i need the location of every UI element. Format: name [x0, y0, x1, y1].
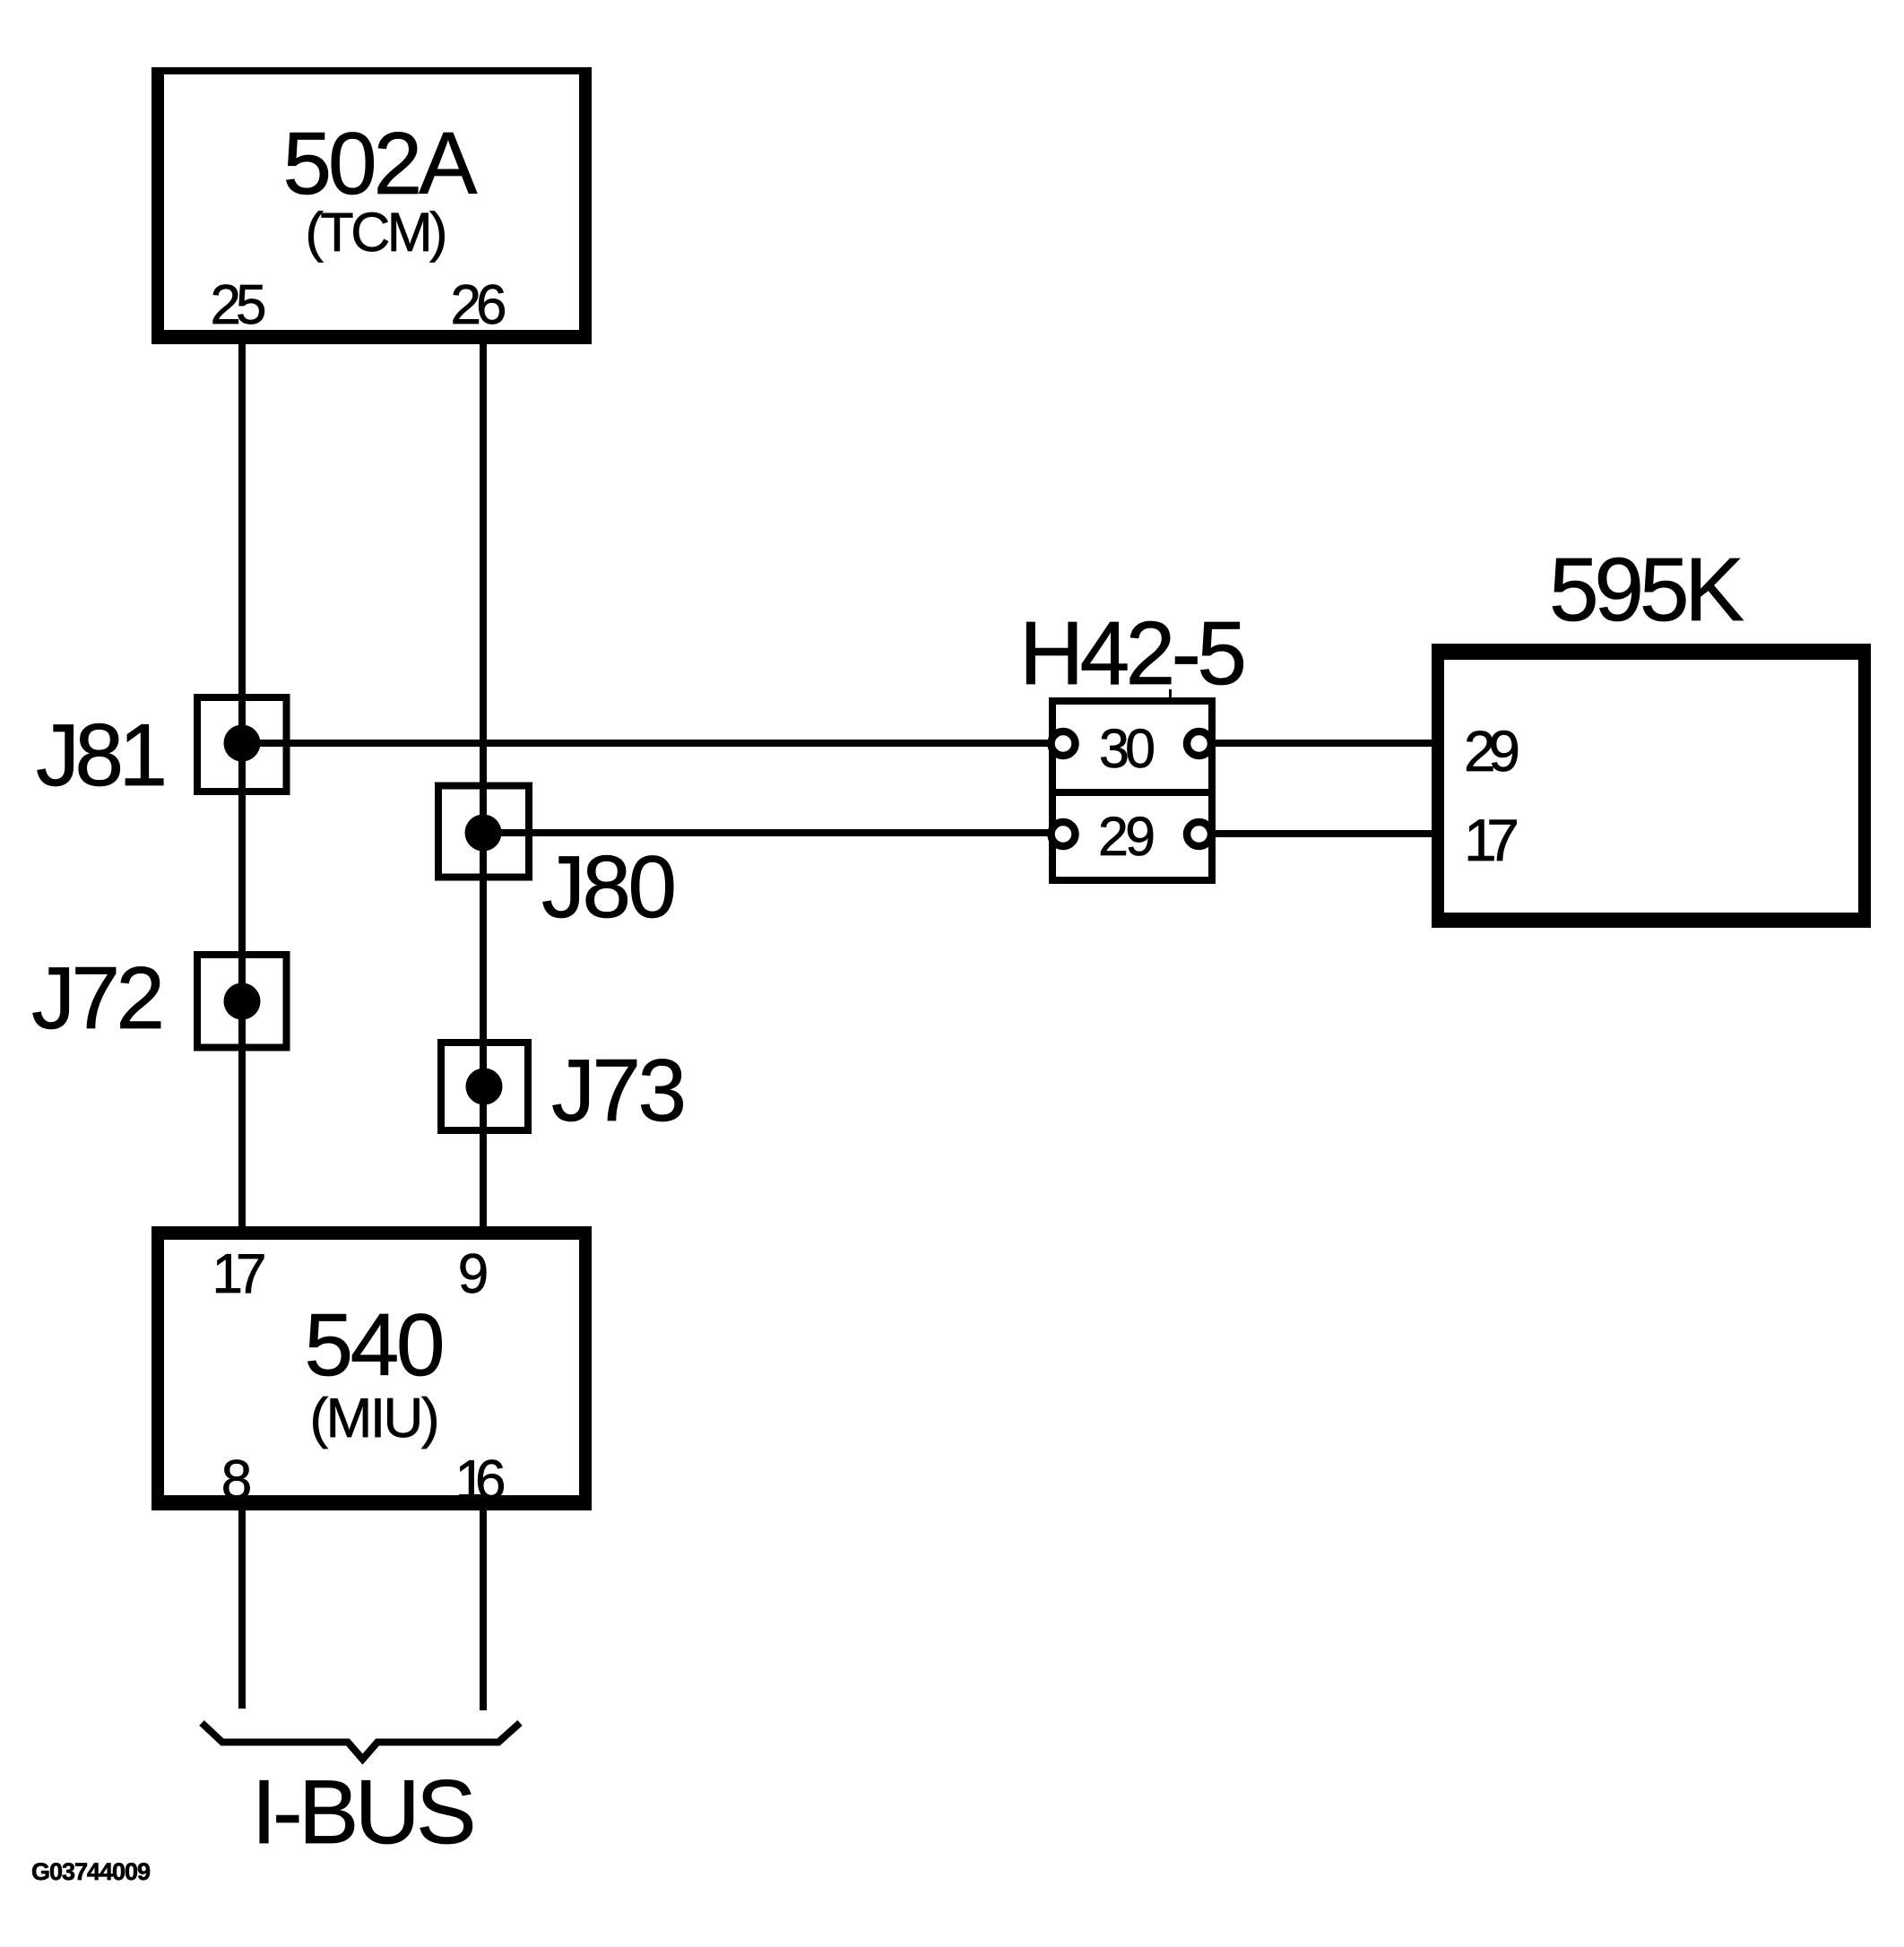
svg-text:595K: 595K — [1549, 540, 1744, 640]
wire from 540 pin 16 to I-BUS — [480, 1509, 487, 1710]
junction J80 dot — [465, 815, 502, 852]
wire from junction J81 to connector H42-5 pin 30 — [242, 740, 1049, 747]
svg-text:H42-5: H42-5 — [1019, 603, 1247, 704]
svg-text:29: 29 — [1098, 806, 1155, 867]
wire from junction J80 to connector H42-5 pin 29 — [483, 829, 1049, 836]
wire from connector H42-5 pin 30 to 595K pin 29 — [1216, 740, 1435, 747]
svg-text:(MIU): (MIU) — [310, 1388, 440, 1449]
pin circle H42-5 cell 30 right — [1187, 731, 1211, 756]
junction J81 dot — [224, 725, 261, 762]
svg-text:29: 29 — [1464, 719, 1520, 783]
tick mark above H42-5 box — [1169, 689, 1172, 698]
junction J80 square — [438, 786, 529, 878]
pin circle H42-5 cell 30 left — [1052, 731, 1076, 756]
pin circle H42-5 cell 29 left — [1052, 822, 1076, 846]
svg-text:17: 17 — [1464, 807, 1519, 873]
svg-text:540: 540 — [305, 1295, 446, 1394]
svg-text:8: 8 — [221, 1449, 252, 1511]
svg-text:J81: J81 — [36, 705, 168, 804]
wire from 540 pin 8 to I-BUS — [238, 1509, 246, 1709]
I-BUS brace — [202, 1723, 520, 1760]
junction J73 square — [441, 1043, 528, 1130]
pin circle H42-5 cell 29 right — [1187, 822, 1211, 846]
svg-text:16: 16 — [455, 1449, 506, 1511]
wire from connector H42-5 pin 29 to 595K pin 17 — [1216, 830, 1435, 837]
svg-text:30: 30 — [1099, 718, 1155, 779]
svg-text:G03744009: G03744009 — [31, 1858, 151, 1885]
svg-text:25: 25 — [211, 274, 267, 336]
svg-text:(TCM): (TCM) — [306, 202, 448, 263]
svg-text:502A: 502A — [283, 114, 479, 212]
wire from 502A pin 26 to 540 pin 9 — [480, 342, 487, 1228]
svg-text:J73: J73 — [551, 1041, 687, 1139]
junction J81 square — [197, 697, 287, 792]
svg-text:26: 26 — [451, 274, 507, 336]
junction J73 dot — [466, 1069, 503, 1105]
connector 502A (TCM) box — [151, 67, 592, 344]
svg-text:J72: J72 — [31, 948, 165, 1047]
wire from 502A pin 25 to 540 pin 17 — [238, 342, 246, 1228]
connector H42-5 divider — [1049, 789, 1216, 796]
component 540 (MIU) box — [151, 1226, 592, 1510]
junction J72 square — [197, 955, 287, 1048]
connector H42-5 box — [1052, 701, 1212, 880]
svg-text:I-BUS: I-BUS — [252, 1762, 477, 1863]
component 595K box — [1432, 644, 1871, 928]
junction J72 dot — [224, 983, 261, 1020]
svg-text:J80: J80 — [541, 837, 677, 936]
svg-text:9: 9 — [458, 1243, 489, 1305]
svg-text:17: 17 — [212, 1243, 267, 1305]
